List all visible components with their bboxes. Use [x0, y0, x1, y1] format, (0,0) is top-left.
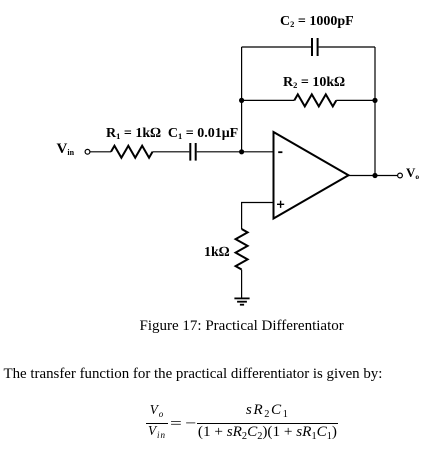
label R1 value and C1 value [106, 127, 238, 141]
ground [234, 298, 249, 304]
node junction left of R2 [239, 98, 244, 103]
op-amp minus pin label [278, 151, 282, 153]
terminal Vin [85, 149, 90, 154]
label Vin [57, 142, 75, 157]
capacitor C2 [312, 38, 318, 56]
wire R1 to C1 [153, 151, 190, 153]
body text [4, 367, 383, 382]
wire output [349, 175, 398, 177]
node junction right of R2 [372, 98, 377, 103]
wire Vin terminal to R1 [90, 151, 111, 153]
node junction at inverting input [239, 149, 244, 154]
node junction at output [372, 173, 377, 178]
equation transfer function [146, 403, 338, 439]
wire right feedback vertical [374, 47, 376, 176]
wire non-inverting input [242, 203, 274, 230]
op-amp U1 [274, 132, 349, 219]
resistor R1 [111, 146, 153, 158]
equation rhs fraction [197, 402, 339, 440]
label 1k value [204, 246, 230, 260]
terminal Vo [398, 173, 403, 178]
wire left feedback vertical [241, 47, 243, 152]
label C2 value [280, 15, 354, 29]
label Vo [406, 166, 419, 179]
caption Figure 17 [140, 319, 344, 334]
capacitor C1 [190, 143, 195, 161]
op-amp plus pin label [277, 201, 284, 208]
wire top feedback left segment [242, 46, 311, 48]
wire R2 branch right segment [336, 99, 375, 101]
equation lhs Vo over Vin [146, 403, 168, 437]
wire R2 branch left segment [242, 99, 295, 101]
resistor 1k [236, 229, 248, 270]
equation equals minus [170, 416, 182, 431]
wire C1 to op-amp inverting input [197, 151, 274, 153]
wire top feedback right segment [319, 46, 375, 48]
wire 1k resistor to ground [241, 270, 243, 299]
label R2 value [283, 76, 345, 90]
resistor R2 [294, 94, 336, 106]
